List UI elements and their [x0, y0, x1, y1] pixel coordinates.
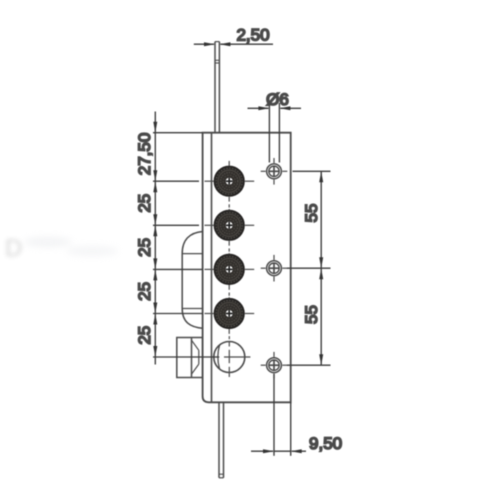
right 55 dimension line — [320, 171, 322, 365]
bottom rod — [219, 402, 224, 478]
knob K2 centerline ticks — [205, 204, 255, 245]
knob K4 centerline ticks — [205, 293, 255, 334]
dimension 2,50 line — [194, 43, 273, 45]
cylinder hole (white circle) — [214, 342, 245, 373]
svg-text:25: 25 — [135, 326, 154, 345]
dimension O6 arrows — [258, 106, 290, 110]
dimension 9,50 arrows — [263, 449, 302, 453]
dimension O6 extension lines — [269, 103, 279, 163]
svg-text:2,50: 2,50 — [236, 25, 269, 44]
watermark smudge — [5, 235, 118, 262]
deadbolt block — [177, 338, 203, 378]
dimension 9,50 line — [251, 450, 306, 452]
svg-text:55: 55 — [302, 305, 321, 324]
latch bolt (rounded, left of faceplate) — [182, 232, 202, 329]
right 55 arrows — [319, 171, 323, 365]
dimension 2,50 arrows — [204, 42, 230, 46]
svg-text:9,50: 9,50 — [309, 434, 342, 453]
svg-text:25: 25 — [135, 194, 154, 213]
faceplate inner edge line — [211, 133, 213, 403]
knob K4 — [214, 299, 244, 329]
dimension O6 line — [248, 107, 302, 109]
cylinder hole cam arc — [218, 345, 220, 368]
dimension 9,50 extension lines — [274, 374, 291, 456]
right 55 extension lines — [287, 171, 331, 365]
svg-text:Ø6: Ø6 — [266, 90, 289, 109]
svg-text:27,50: 27,50 — [135, 133, 154, 176]
hole H2 (middle) — [261, 255, 288, 282]
knob K1 centerline ticks — [205, 161, 255, 202]
svg-text:25: 25 — [135, 238, 154, 257]
left chain extension lines — [153, 133, 219, 357]
knob K3 centerline ticks — [205, 248, 255, 289]
knob K1 — [214, 166, 244, 196]
hole H3 (bottom) — [261, 352, 288, 379]
svg-text:D: D — [5, 235, 22, 262]
left chain arrows — [153, 122, 157, 357]
knob K3 — [214, 254, 244, 284]
svg-text:55: 55 — [302, 204, 321, 223]
top spindle rod — [215, 42, 220, 133]
left chain dimension line — [154, 112, 156, 365]
svg-text:25: 25 — [135, 282, 154, 301]
knob K2 — [214, 210, 244, 240]
cylinder hole centerlines — [224, 336, 250, 377]
body outline (gearbox case) — [203, 133, 291, 403]
hole H1 (top, Ø6) — [261, 158, 288, 185]
